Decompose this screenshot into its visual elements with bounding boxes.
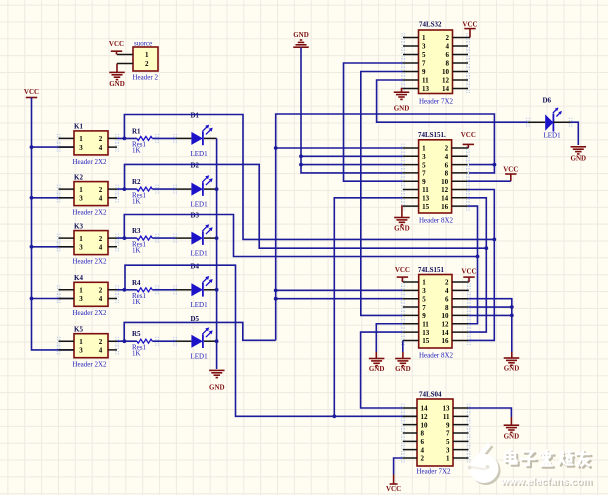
LED D5 symbol (LED1) — [191, 327, 212, 348]
svg-text:13: 13 — [422, 195, 430, 203]
wire net K5 row — [124, 322, 276, 341]
svg-text:D1: D1 — [191, 112, 200, 120]
svg-text:GND: GND — [394, 225, 410, 233]
pin stub D3 cathode — [204, 237, 217, 239]
wire R3 to D3 anode — [152, 237, 175, 239]
svg-text:11: 11 — [422, 320, 429, 328]
svg-text:5: 5 — [446, 438, 450, 446]
svg-text:www.elecfans.com: www.elecfans.com — [500, 477, 592, 488]
svg-text:4: 4 — [445, 153, 449, 161]
resistor R3 (Res1 1K) — [137, 236, 152, 240]
svg-text:1: 1 — [79, 338, 83, 346]
wire R4 to D4 anode — [152, 289, 175, 291]
wire enable net to U3 pin 3 — [276, 289, 403, 291]
connector K4 Header 2X2 — [74, 282, 108, 306]
svg-text:1: 1 — [79, 186, 83, 194]
svg-text:14: 14 — [441, 195, 449, 203]
svg-text:GND: GND — [504, 433, 520, 441]
svg-text:15: 15 — [422, 337, 430, 345]
svg-text:10: 10 — [441, 178, 449, 186]
ground GND (D6) — [571, 147, 587, 163]
ground GND (right of 74LS04) — [504, 425, 520, 440]
svg-text:VCC: VCC — [461, 268, 476, 276]
svg-text:VCC: VCC — [395, 266, 410, 274]
svg-text:14: 14 — [421, 405, 429, 413]
svg-text:6: 6 — [445, 295, 449, 303]
svg-text:3: 3 — [422, 43, 426, 51]
junction GND column / pin8 wire — [510, 305, 514, 309]
svg-text:8: 8 — [445, 170, 449, 178]
VCC stub (74LS04) — [393, 475, 395, 484]
svg-text:GND: GND — [394, 105, 410, 113]
wire LED cathode bus — [216, 138, 218, 369]
junction U2pin13 column / K4 net — [332, 414, 336, 418]
svg-text:GND: GND — [369, 365, 385, 373]
svg-text:VCC: VCC — [503, 165, 518, 173]
svg-text:1K: 1K — [132, 147, 141, 155]
wire U2 pin10 to VCC — [468, 180, 511, 182]
svg-text:VCC: VCC — [24, 88, 39, 96]
svg-text:15: 15 — [422, 203, 430, 211]
svg-text:R3: R3 — [132, 227, 141, 235]
svg-text:K1: K1 — [74, 123, 83, 131]
svg-text:1: 1 — [79, 287, 83, 295]
svg-text:Header 8X2: Header 8X2 — [419, 217, 454, 225]
svg-text:LED1: LED1 — [191, 301, 209, 309]
svg-text:Header 2X2: Header 2X2 — [73, 258, 108, 266]
junction K1 pin2 / R1 / riser — [123, 137, 127, 141]
resistor R1 (Res1 1K) — [137, 136, 152, 140]
svg-text:74LS04: 74LS04 — [419, 390, 442, 398]
VCC stub down to pin10 wire — [510, 174, 512, 181]
connector K5 Header 2X2 — [74, 334, 108, 358]
ground GND (top-left header) — [109, 72, 125, 87]
ground GND (74LS151 #1) — [394, 218, 410, 233]
svg-text:1K: 1K — [132, 350, 141, 358]
power VCC (U2 pin 10 feed) — [503, 165, 518, 174]
wire enable net trunk — [276, 114, 495, 340]
IC U1 74LS32 — [419, 30, 453, 94]
IC U2 74LS151 #1 — [419, 140, 452, 213]
wire K5 pin 2 to R5 — [117, 340, 137, 342]
wire U2 pin12 to U3 pin16 — [468, 190, 495, 341]
wire bus to K3 pin 3 — [32, 246, 75, 248]
VCC stub to U2 pin 2 — [467, 144, 469, 148]
svg-text:12: 12 — [421, 413, 429, 421]
svg-text:Header 2X2: Header 2X2 — [73, 209, 108, 217]
wire R2 to D2 anode — [152, 188, 175, 190]
junction enable net / U3 pin3 wire — [274, 288, 278, 292]
svg-text:13: 13 — [443, 405, 451, 413]
pin stubs of 74LS32 — [403, 38, 468, 89]
svg-text:Header 2X2: Header 2X2 — [73, 158, 108, 166]
svg-text:Header 2X2: Header 2X2 — [73, 309, 108, 317]
svg-text:6: 6 — [446, 51, 450, 59]
svg-text:2: 2 — [99, 235, 103, 243]
power VCC (74LS151 #1) — [461, 131, 476, 144]
svg-text:5: 5 — [422, 161, 426, 169]
wire U3 pin2 extension — [468, 281, 470, 283]
svg-text:74LS32: 74LS32 — [419, 21, 442, 29]
resistor R5 (Res1 1K) — [137, 339, 152, 343]
pin stubs of 74LS04 — [403, 408, 469, 458]
ground GND (right of 74LS151 #2) — [504, 358, 520, 373]
VCC stub to U3 pin 2 — [468, 277, 470, 282]
svg-text:8: 8 — [421, 430, 425, 438]
wire K1 pin 2 to R1 — [117, 137, 137, 139]
GND stub (U3 pin 11) — [375, 352, 377, 359]
pin stubs of 74LS151. — [403, 148, 468, 206]
pin stubs of K5 — [59, 341, 118, 350]
svg-text:LED1: LED1 — [191, 150, 209, 158]
svg-text:GND: GND — [395, 365, 411, 373]
junction enable net / U2 pin6 wire — [493, 163, 497, 167]
svg-text:14: 14 — [442, 85, 450, 93]
svg-text:1: 1 — [422, 279, 426, 287]
svg-text:12: 12 — [442, 320, 450, 328]
VCC stub to U1 pin 2 — [469, 29, 471, 38]
svg-text:K5: K5 — [74, 325, 83, 333]
svg-text:2: 2 — [99, 338, 103, 346]
junction select net / pin3 wire — [299, 154, 303, 158]
power VCC (74LS32) — [462, 21, 477, 29]
pin stub D4 anode — [176, 289, 192, 291]
pin stub D5 anode — [176, 340, 192, 342]
svg-text:8: 8 — [446, 60, 450, 68]
svg-text:9: 9 — [422, 68, 426, 76]
svg-text:3: 3 — [79, 244, 83, 252]
svg-text:2: 2 — [421, 455, 425, 463]
wire GND select net trunk to U2 pin 7 — [301, 48, 403, 173]
VCC stub to U3 pin 1 — [401, 277, 403, 282]
svg-text:13: 13 — [422, 85, 430, 93]
svg-text:GND: GND — [504, 365, 520, 373]
svg-text:2: 2 — [445, 145, 449, 153]
svg-text:6: 6 — [445, 161, 449, 169]
wire enable net to U2 pin 1 — [276, 147, 403, 149]
pin stubs of K1 — [59, 138, 118, 147]
svg-text:LED1: LED1 — [191, 201, 209, 209]
svg-text:LED1: LED1 — [191, 250, 209, 258]
svg-text:4: 4 — [99, 195, 103, 203]
svg-text:3: 3 — [79, 144, 83, 152]
svg-text:LED1: LED1 — [191, 353, 209, 361]
GND stub from header pin 2 — [116, 64, 118, 73]
svg-text:1: 1 — [422, 145, 426, 153]
IC U4 74LS04 — [417, 399, 453, 466]
pin stub D6 anode — [528, 121, 545, 123]
wire U1 pin9 to U3 pin9 — [361, 72, 403, 316]
svg-text:11: 11 — [443, 413, 450, 421]
svg-text:D3: D3 — [191, 212, 200, 220]
pin stub D5 cathode — [204, 340, 217, 342]
junction cathode bus / D3 cathode — [215, 236, 219, 240]
pin stub D1 cathode — [204, 137, 217, 139]
wire GND select net to U2 pin 3 — [301, 155, 403, 157]
wire U3 pin 15 to GND — [402, 340, 404, 352]
wire K3 pin 2 to R3 — [117, 237, 137, 239]
svg-text:1: 1 — [79, 235, 83, 243]
wire U3 pin 8 to GND column — [469, 306, 512, 308]
svg-text:16: 16 — [442, 337, 450, 345]
svg-text:2: 2 — [446, 34, 450, 42]
junction K2 net on U2pin14 column — [484, 246, 488, 250]
svg-text:9: 9 — [446, 421, 450, 429]
svg-text:R1: R1 — [132, 127, 141, 135]
watermark chinese text 电子发烧友 — [507, 452, 519, 466]
ground GND (under 74LS151 #2 right) — [395, 359, 411, 374]
wire GND select net to U2 pin 5 — [301, 164, 403, 166]
svg-text:3: 3 — [422, 287, 426, 295]
wire U2 pin16 to U3 pin12 — [468, 206, 478, 324]
svg-text:1K: 1K — [132, 246, 141, 254]
connector K2 Header 2X2 — [74, 182, 108, 206]
connector header "suorce" Header 2 — [133, 47, 158, 71]
wire U1 pin2 extension — [468, 37, 470, 39]
svg-text:16: 16 — [441, 203, 449, 211]
GND stub (U3 pin 15) — [402, 352, 404, 359]
wire U2 pin14 to U3 pin14 — [468, 198, 487, 332]
svg-text:R5: R5 — [132, 330, 141, 338]
IC U3 74LS151 #2 — [419, 275, 452, 349]
svg-text:7: 7 — [422, 170, 426, 178]
pin stub D4 cathode — [204, 289, 217, 291]
junction K4 pin2 / R4 / riser — [123, 288, 127, 292]
svg-text:2: 2 — [99, 186, 103, 194]
pin stub D2 anode — [176, 188, 192, 190]
svg-text:10: 10 — [442, 68, 450, 76]
svg-text:D4: D4 — [191, 262, 200, 270]
watermark elecfans logo circle — [466, 443, 500, 486]
svg-text:12: 12 — [442, 77, 450, 85]
svg-text:9: 9 — [422, 312, 426, 320]
LED D3 symbol (LED1) — [191, 224, 212, 245]
svg-text:GND: GND — [571, 154, 587, 162]
wire U2 pin 6 to enable net — [469, 164, 495, 166]
svg-text:7: 7 — [446, 430, 450, 438]
svg-text:4: 4 — [445, 287, 449, 295]
junction K3 net on U2pin16 column — [476, 255, 480, 259]
svg-text:11: 11 — [422, 186, 429, 194]
wire left VCC bus — [32, 98, 75, 350]
svg-text:3: 3 — [446, 446, 450, 454]
junction bus / K2 pin 3 — [30, 196, 34, 200]
svg-text:1K: 1K — [132, 197, 141, 205]
wire D6 cathode to GND — [571, 122, 579, 145]
svg-text:13: 13 — [422, 329, 430, 337]
GND elbow from U2 pin 15 — [401, 206, 404, 217]
power VCC (74LS04) below — [386, 484, 401, 493]
svg-text:VCC: VCC — [386, 485, 401, 493]
svg-text:LED1: LED1 — [544, 132, 562, 140]
svg-text:1K: 1K — [132, 298, 141, 306]
power VCC (74LS151 #2 left) — [395, 266, 410, 277]
wire K4 pin 2 to R4 — [117, 289, 137, 291]
junction enable net / U2 pin1 wire — [274, 146, 278, 150]
pin stub D2 cathode — [204, 188, 217, 190]
junction select net / pin5 wire — [299, 163, 303, 167]
svg-text:3: 3 — [422, 153, 426, 161]
svg-text:1: 1 — [446, 455, 450, 463]
pin stub D1 anode — [176, 137, 192, 139]
svg-text:K4: K4 — [74, 274, 83, 282]
svg-text:11: 11 — [422, 77, 429, 85]
wire U4 pin 13 to GND — [469, 408, 512, 417]
wire U3 pins 6/8/10 to GND — [469, 299, 512, 352]
svg-text:GND: GND — [209, 383, 225, 391]
svg-text:1: 1 — [145, 51, 149, 59]
pin stubs of K3 — [59, 238, 118, 247]
svg-text:4: 4 — [99, 144, 103, 152]
svg-text:GND: GND — [293, 31, 309, 39]
pin stubs of K4 — [59, 290, 118, 299]
svg-text:1: 1 — [422, 34, 426, 42]
svg-text:1: 1 — [79, 135, 83, 143]
wire U4 pin 2 to VCC — [394, 458, 403, 475]
resistor R2 (Res1 1K) — [137, 187, 152, 191]
svg-text:Header 2X2: Header 2X2 — [73, 361, 108, 369]
LED D1 symbol (LED1) — [191, 125, 212, 146]
pin stub D6 cathode — [553, 121, 570, 123]
wire U3 pin 11 to GND — [376, 324, 403, 352]
pin stub D3 anode — [176, 237, 192, 239]
svg-text:VCC: VCC — [461, 131, 476, 139]
wire R5 to D5 anode — [152, 340, 175, 342]
GND stub (U3 pins 6/8/10) — [511, 352, 513, 358]
svg-text:2: 2 — [145, 60, 149, 68]
ground GND (74LS32) — [394, 92, 410, 112]
junction enable net / U3 pin5 wire — [274, 297, 278, 301]
svg-text:4: 4 — [99, 295, 103, 303]
junction bus / K3 pin 3 — [30, 245, 34, 249]
wire bus to K2 pin 3 — [32, 197, 75, 199]
svg-text:5: 5 — [422, 295, 426, 303]
GND stub (U4 pin 13) — [510, 417, 512, 425]
svg-text:10: 10 — [442, 312, 450, 320]
svg-text:suorce: suorce — [134, 40, 152, 48]
svg-text:Header 7X2: Header 7X2 — [419, 98, 454, 106]
wire U2 pin13 column to 74LS04 — [334, 198, 403, 416]
svg-text:10: 10 — [421, 421, 429, 429]
LED D4 symbol (LED1) — [191, 276, 212, 297]
junction K1 net on U2pin12 column — [492, 238, 496, 242]
svg-text:Header 7X2: Header 7X2 — [417, 468, 452, 476]
connector K1 Header 2X2 — [74, 131, 108, 155]
svg-text:VCC: VCC — [109, 40, 124, 48]
junction K3 pin2 / R3 / riser — [123, 236, 127, 240]
svg-text:3: 3 — [79, 347, 83, 355]
resistor R4 (Res1 1K) — [137, 288, 152, 292]
wire enable net to U3 pin 5 — [276, 298, 403, 300]
svg-text:7: 7 — [422, 60, 426, 68]
power VCC (74LS151 #2 right) — [461, 268, 476, 278]
svg-text:2: 2 — [99, 287, 103, 295]
svg-text:4: 4 — [99, 347, 103, 355]
svg-text:K3: K3 — [74, 222, 83, 230]
junction cathode bus / D2 cathode — [215, 187, 219, 191]
svg-text:K2: K2 — [74, 173, 83, 181]
svg-text:12: 12 — [441, 186, 449, 194]
svg-text:D6: D6 — [543, 97, 552, 105]
svg-text:GND: GND — [109, 80, 125, 88]
svg-text:4: 4 — [446, 43, 450, 51]
svg-text:Header 2: Header 2 — [133, 74, 159, 82]
LED D6 symbol (LED1) — [545, 108, 562, 132]
wire U3 pin 10 to GND column — [469, 314, 512, 316]
svg-text:4: 4 — [99, 244, 103, 252]
svg-text:7: 7 — [422, 304, 426, 312]
svg-text:4: 4 — [421, 446, 425, 454]
svg-text:Header 8X2: Header 8X2 — [419, 352, 454, 360]
junction GND column / pin10 wire — [510, 314, 514, 318]
wire U1 pin11 to D6 anode — [377, 80, 528, 122]
wire net K1 row — [124, 115, 494, 240]
wire U3 pin13 to 74LS04 pin 14 — [361, 332, 403, 408]
connector K3 Header 2X2 — [74, 231, 108, 255]
pin stubs of K2 — [59, 189, 118, 198]
junction K2 pin2 / R2 / riser — [123, 187, 127, 191]
ground GND (cathode bus) — [209, 370, 225, 391]
junction K5 pin2 / R5 / riser — [123, 339, 127, 343]
junction cathode bus / D4 cathode — [215, 288, 219, 292]
svg-text:3: 3 — [79, 195, 83, 203]
wire net K2 row — [125, 164, 487, 248]
ground GND (under 74LS151 #2 left) — [369, 359, 385, 374]
junction bus / K4 pin 3 — [30, 297, 34, 301]
pin stubs of 74LS151 — [403, 282, 469, 340]
svg-text:R4: R4 — [132, 279, 141, 287]
wire bus to K1 pin 3 — [32, 146, 75, 148]
svg-text:8: 8 — [445, 304, 449, 312]
wire net K4 row — [125, 265, 417, 416]
pin stubs of Header 2 — [117, 55, 133, 64]
svg-text:3: 3 — [79, 295, 83, 303]
svg-text:R2: R2 — [132, 178, 141, 186]
svg-text:74LS151: 74LS151 — [418, 266, 445, 274]
svg-text:6: 6 — [421, 438, 425, 446]
svg-text:74LS151.: 74LS151. — [418, 131, 446, 139]
svg-text:9: 9 — [422, 178, 426, 186]
wire K2 pin 2 to R2 — [117, 188, 137, 190]
svg-text:2: 2 — [99, 135, 103, 143]
wire R1 to D1 anode — [152, 137, 175, 139]
junction cathode bus / D5 cathode — [215, 339, 219, 343]
svg-text:5: 5 — [422, 51, 426, 59]
power VCC (left bus) — [24, 88, 39, 98]
svg-text:VCC: VCC — [462, 21, 477, 29]
svg-text:D2: D2 — [191, 162, 200, 170]
wire bus to K4 pin 3 — [32, 298, 75, 300]
wire U1 pin7 to U2 pin9 — [344, 63, 404, 181]
GND elbow from U1 pin 13 — [402, 89, 404, 92]
LED D2 symbol (LED1) — [191, 175, 212, 196]
ground GND (top middle select net) — [293, 31, 309, 47]
junction bus / K1 pin 3 — [30, 145, 34, 149]
wire U2 pin2 extension — [467, 147, 470, 149]
svg-text:2: 2 — [445, 279, 449, 287]
VCC stub to header pin 1 — [116, 51, 118, 54]
svg-text:14: 14 — [442, 329, 450, 337]
power VCC (top-left header) — [109, 40, 124, 51]
wire net K3 row — [124, 215, 477, 257]
